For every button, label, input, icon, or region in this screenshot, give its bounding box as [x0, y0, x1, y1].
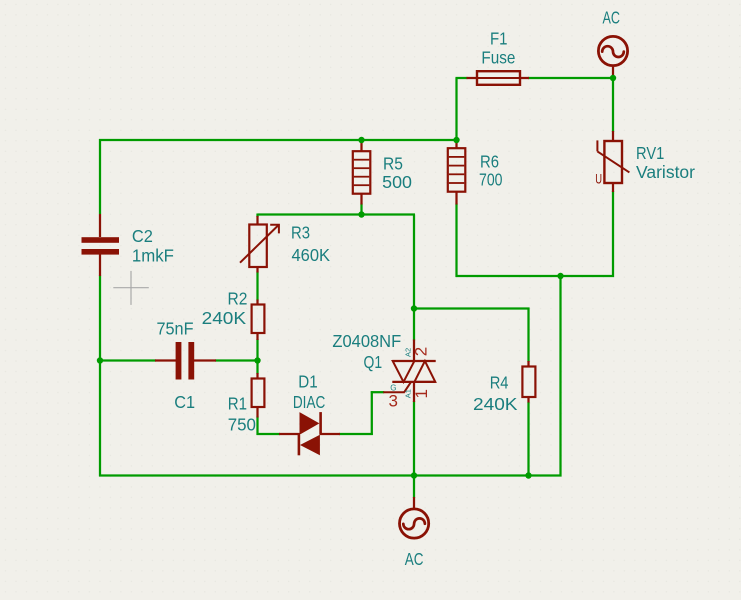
svg-text:C1: C1: [174, 392, 195, 412]
wire: C1 right to R1/R2 node: [215, 359, 259, 361]
wire: R4 bottom to bottom rail: [527, 402, 529, 476]
wire: R3 top pin: [256, 214, 258, 218]
pin: R4 top pin: [527, 361, 529, 367]
svg-text:1: 1: [412, 389, 431, 398]
varistor RV1: [595, 140, 629, 186]
junction bottom rail AC: [411, 472, 417, 478]
wire: top horizontal net from C2 top to R6 top: [99, 139, 458, 141]
wire: fuse right to AC top junction: [528, 77, 614, 79]
pin: R1 top pin: [256, 373, 258, 379]
svg-text:R1: R1: [228, 394, 247, 414]
wire: node to R1 top: [256, 360, 258, 374]
svg-text:R6: R6: [480, 151, 499, 171]
pin: AC bottom source top pin: [413, 497, 415, 509]
junction R5 bottom: [358, 211, 364, 217]
capacitor C1: [176, 342, 195, 380]
svg-text:Q1: Q1: [364, 352, 383, 372]
wire: R4 top vertical: [527, 308, 529, 363]
junction AC top: [610, 75, 616, 81]
pin: R3 bottom pin: [256, 267, 258, 273]
pin: RV1 bottom pin: [612, 182, 614, 192]
pin: DIAC right pin: [320, 433, 340, 435]
svg-text:3: 3: [389, 392, 398, 411]
pin: R6 bottom pin: [455, 192, 457, 205]
capacitor C2: [82, 237, 120, 254]
svg-text:700: 700: [479, 169, 503, 189]
wire: vertical from R5 net down to triac net: [413, 215, 415, 310]
svg-text:75nF: 75nF: [157, 318, 194, 338]
junction left C1 node: [97, 357, 103, 363]
pin: R2 top pin: [256, 300, 258, 306]
svg-text:Z0408NF: Z0408NF: [332, 331, 401, 351]
cursor crosshair: [113, 271, 149, 305]
pin: C1 left pin: [155, 359, 177, 361]
wire: R2 bottom to node: [256, 339, 258, 361]
pin: fuse right pin: [520, 77, 530, 79]
wire: fuse left stub: [456, 77, 468, 79]
pin: DIAC left pin: [279, 433, 300, 435]
junction R5 top: [358, 137, 364, 143]
pin: triac A1 pin: [413, 382, 415, 403]
pin: AC top source bottom pin: [612, 67, 614, 79]
pin: R2 bottom pin: [256, 333, 258, 340]
pin: R4 bottom pin: [527, 397, 529, 403]
svg-text:750: 750: [228, 414, 256, 434]
pin: C2 top pin: [99, 214, 101, 237]
pin: RV1 top pin: [612, 131, 614, 142]
junction R6 top: [453, 137, 459, 143]
svg-text:AC: AC: [405, 549, 424, 569]
svg-text:F1: F1: [490, 29, 508, 49]
wire: left vertical from top wire down to C2: [99, 139, 101, 214]
wire: R5 bottom: [360, 204, 362, 216]
svg-text:RV1: RV1: [636, 143, 664, 163]
diac D1: [299, 412, 321, 455]
svg-text:Varistor: Varistor: [636, 162, 695, 182]
wire: vertical from right loop down to bottom rail: [559, 275, 561, 477]
potentiometer R3: [240, 225, 279, 268]
junction triac A2 net: [411, 305, 417, 311]
wire: junction C1 left stub: [100, 359, 156, 361]
wire: DIAC up to gate level: [371, 391, 373, 435]
svg-text:R5: R5: [383, 154, 403, 174]
wire: R6 bottom vertical: [455, 204, 457, 278]
wire: bottom horizontal rail: [99, 474, 562, 476]
wire: bottom horizontal of right loop: [456, 275, 615, 277]
wire: R3 top horizontal to vertical drop: [258, 213, 416, 215]
AC source bottom: [400, 509, 429, 538]
wire: R6 top vertical riser to fuse level: [455, 78, 457, 142]
svg-text:Fuse: Fuse: [481, 48, 515, 68]
fuse F1: [477, 71, 520, 85]
svg-text:C2: C2: [132, 226, 153, 246]
svg-text:500: 500: [382, 172, 412, 192]
triac Q1: [383, 361, 436, 392]
svg-text:1mkF: 1mkF: [132, 246, 174, 266]
pin: R3 top pin: [256, 216, 258, 225]
wire: bottom rail to AC source: [413, 476, 415, 499]
pin: fuse left pin: [467, 77, 478, 79]
svg-text:R3: R3: [291, 222, 310, 242]
wire: R1 bottom corner to DIAC: [256, 417, 258, 436]
svg-text:240K: 240K: [202, 308, 247, 328]
resistor R6 (boxed element style): [448, 148, 466, 192]
pin: R1 bottom pin: [256, 407, 258, 418]
resistor R1: [252, 379, 265, 408]
svg-text:R4: R4: [490, 372, 509, 392]
pin: C1 right pin: [194, 359, 217, 361]
resistor R4: [522, 367, 535, 398]
pin: R5 top pin: [360, 141, 362, 152]
wire: RV1 bottom vertical: [612, 191, 614, 277]
junction right loop: [557, 273, 563, 279]
svg-text:R2: R2: [228, 289, 248, 309]
pin: R5 bottom pin: [360, 193, 362, 205]
wire: triac A2 from junction: [413, 309, 415, 341]
junction bottom rail R4: [525, 472, 531, 478]
resistor R5 (boxed element style): [353, 151, 371, 194]
resistor R2: [252, 305, 265, 334]
junction R1/R2 node: [254, 357, 260, 363]
wire: triac A1 down to bottom rail: [413, 401, 415, 476]
svg-text:DIAC: DIAC: [293, 392, 326, 412]
wire: left vertical from C2 bottom to bottom rail: [99, 276, 101, 477]
svg-text:AC: AC: [603, 8, 621, 28]
wire: AC junction down to RV1: [612, 78, 614, 133]
wire: R3 bottom to R2 top: [256, 272, 258, 301]
svg-text:2: 2: [412, 347, 431, 356]
pin: C2 bottom pin: [99, 255, 101, 277]
AC source top: [598, 36, 627, 65]
wire: DIAC right side: [339, 433, 373, 435]
svg-text:D1: D1: [298, 371, 317, 391]
svg-text:A1: A1: [403, 389, 412, 398]
svg-text:U: U: [595, 172, 602, 187]
svg-text:240K: 240K: [473, 394, 518, 414]
pin: R6 top pin: [455, 141, 457, 149]
pin: triac A2 pin: [413, 340, 415, 362]
svg-text:460K: 460K: [292, 245, 331, 265]
wire: horizontal triac-A2 net to R4: [413, 307, 530, 309]
